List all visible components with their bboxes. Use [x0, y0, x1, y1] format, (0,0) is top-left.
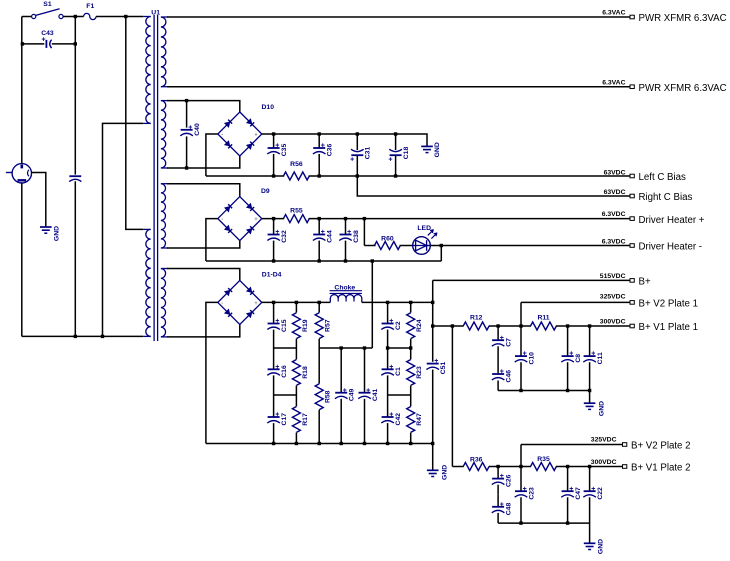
capacitor C23: [515, 490, 527, 492]
wire B+ V2 Plate 2 output: [521, 444, 623, 446]
svg-text:GND: GND: [434, 142, 441, 157]
svg-text:PWR XFMR 6.3VAC: PWR XFMR 6.3VAC: [639, 13, 727, 24]
svg-text:+: +: [500, 335, 504, 342]
svg-text:C38: C38: [353, 230, 360, 243]
capacitor C7: [492, 339, 504, 341]
wire junction rail C1-R23: [388, 394, 411, 396]
svg-text:R57: R57: [325, 319, 332, 332]
wire plate2 ground stub: [589, 523, 591, 543]
capacitor line filter: [69, 175, 81, 177]
bridge rectifier D10: [218, 112, 262, 156]
node bias bottom rail junction: [272, 174, 275, 177]
wire bias bottom rail left of R56: [206, 175, 284, 177]
ground bias GND: [421, 145, 433, 147]
resistor R19: [295, 302, 297, 312]
svg-text:+: +: [388, 157, 392, 164]
fuse F1: [84, 13, 96, 19]
wire R60 to LED: [400, 245, 413, 247]
wire 6.3VAC output 2: [167, 86, 630, 88]
node bias bottom rail junction: [318, 174, 321, 177]
capacitor C2: [382, 323, 394, 325]
svg-text:R47: R47: [416, 413, 423, 426]
capacitor C18: [390, 154, 402, 156]
AC plug P1: [12, 164, 31, 183]
svg-text:B+ V2 Plate 1: B+ V2 Plate 1: [639, 299, 699, 310]
svg-text:C35: C35: [281, 144, 288, 157]
resistor R56: [283, 172, 309, 180]
node heater minus to divider junction: [371, 259, 374, 262]
capacitor C40 leads: [186, 101, 188, 128]
wire B+ rail choke to corner: [362, 301, 433, 303]
transformer U1 primary 1 winding: [143, 16, 151, 18]
resistor R11: [531, 322, 557, 330]
wire R11 to B+ V1 Plate 1 port: [556, 325, 630, 327]
wire sec2 bottom to bridge D10: [167, 156, 240, 168]
port PWR XFMR 6.3VAC 1: [630, 15, 634, 19]
port Driver Heater +: [630, 217, 634, 221]
svg-text:+: +: [523, 486, 527, 493]
transformer U1 secondary 4 winding HV: [161, 268, 168, 270]
svg-text:C43: C43: [41, 30, 54, 37]
svg-text:C2: C2: [395, 321, 402, 330]
capacitor C38: [340, 234, 352, 236]
svg-text:S1: S1: [43, 1, 52, 8]
transformer U1 secondary 3 winding heater: [161, 183, 168, 185]
capacitor C16: [268, 368, 280, 370]
capacitor C10 leads: [520, 326, 522, 356]
svg-text:+: +: [389, 364, 393, 371]
svg-text:C41: C41: [372, 388, 379, 401]
resistor R24: [410, 302, 412, 312]
svg-text:F1: F1: [86, 3, 94, 10]
svg-text:C18: C18: [403, 147, 410, 160]
capacitor C15 leads: [273, 302, 275, 323]
resistor R55: [283, 215, 309, 223]
svg-text:R18: R18: [302, 366, 309, 379]
svg-text:C31: C31: [365, 147, 372, 160]
wire plate2 bottom rail: [498, 522, 589, 524]
svg-text:C22: C22: [597, 487, 604, 500]
svg-text:C32: C32: [281, 230, 288, 243]
ground plate2 GND: [584, 542, 596, 544]
capacitor C42: [382, 416, 394, 418]
capacitor C22: [584, 490, 596, 492]
svg-text:C7: C7: [505, 338, 512, 347]
wire B+ riser and C51 column: [432, 280, 434, 361]
svg-text:C48: C48: [505, 503, 512, 516]
capacitor C47: [562, 490, 574, 492]
svg-text:-: -: [221, 217, 223, 223]
capacitor C46 leads: [497, 372, 499, 374]
node C22 top junction: [588, 465, 591, 468]
node bias top rail junction: [356, 132, 359, 135]
node LED output junction: [440, 244, 443, 247]
capacitor C18 leads: [395, 134, 397, 150]
wire plate1 ground stub: [589, 391, 591, 404]
svg-text:+: +: [321, 229, 325, 236]
wire Driver Heater - output: [441, 245, 630, 247]
node heater minus junction: [272, 259, 275, 262]
capacitor C48: [492, 506, 504, 508]
svg-text:R58: R58: [325, 390, 332, 403]
resistor R17: [295, 395, 297, 406]
node rail2 junctions: [340, 346, 343, 349]
node bias top rail junction: [394, 132, 397, 135]
svg-text:R23: R23: [416, 366, 423, 379]
svg-text:+: +: [389, 318, 393, 325]
wire D10 plus rail to GND: [262, 134, 427, 146]
svg-text:+: +: [591, 351, 595, 358]
svg-text:C1: C1: [395, 367, 402, 376]
node C11 top junction: [588, 324, 591, 327]
wire top rail S1 to F1: [63, 16, 84, 18]
capacitor C48 leads: [497, 495, 499, 507]
port Right C Bias: [630, 194, 634, 198]
svg-text:+: +: [254, 217, 258, 223]
port B+ V2 Plate 2: [623, 443, 627, 447]
capacitor C31 leads: [356, 134, 358, 150]
capacitor C47 leads: [567, 467, 569, 492]
svg-text:Choke: Choke: [334, 284, 355, 291]
svg-text:C44: C44: [327, 230, 334, 243]
svg-text:C49: C49: [349, 388, 356, 401]
wire ground rail: [206, 443, 433, 445]
svg-text:+: +: [500, 473, 504, 480]
svg-text:C15: C15: [281, 319, 288, 332]
wire rail2 R57 to heater reference: [319, 347, 372, 349]
node plate2 feed junction: [451, 324, 454, 327]
svg-text:PWR XFMR 6.3VAC: PWR XFMR 6.3VAC: [639, 83, 727, 94]
capacitor C31: [351, 154, 363, 156]
wire Right C Bias branch: [357, 176, 630, 196]
svg-text:B+ V1 Plate 1: B+ V1 Plate 1: [639, 322, 699, 333]
svg-text:+: +: [434, 358, 438, 365]
node C40 top: [185, 99, 188, 102]
resistor R23: [410, 348, 412, 359]
svg-text:+: +: [275, 318, 279, 325]
wire heater plus rail left of R55: [262, 218, 284, 220]
capacitor C17 leads: [273, 395, 275, 417]
wire R35 to B+ V1 Plate 2 port: [556, 466, 623, 468]
node C8 top junction: [566, 324, 569, 327]
svg-text:+: +: [275, 412, 279, 419]
capacitor C49 leads: [340, 348, 342, 393]
transformer U1 secondary 1 winding 6.3VAC: [161, 16, 168, 18]
capacitor C8 leads: [567, 326, 569, 356]
wire R60 branch vertical: [363, 219, 365, 246]
wire R12 rail from B+ riser: [433, 325, 464, 327]
wire plug ground to GND: [32, 173, 46, 228]
svg-text:-: -: [221, 133, 223, 139]
capacitor C10: [515, 355, 527, 357]
wire junction rail C16-R18: [274, 394, 297, 396]
svg-text:+: +: [366, 387, 370, 394]
wire sec4 bottom to bridge D1-D4: [167, 324, 240, 337]
wire sec4 top to bridge D1-D4: [167, 269, 240, 281]
transformer U1 core: [153, 15, 155, 341]
resistor R57: [318, 302, 320, 312]
svg-text:6.3VAC: 6.3VAC: [602, 10, 625, 17]
wire D1-D4 minus stub to ground rail: [206, 302, 218, 443]
wire line filter cap vertical: [74, 17, 76, 175]
node C26 top junction: [496, 465, 499, 468]
wire 325V plate1 riser: [520, 302, 522, 326]
svg-text:+: +: [188, 124, 192, 131]
svg-text:R19: R19: [302, 319, 309, 332]
transformer U1 secondary 2 winding bias: [161, 100, 168, 102]
svg-text:63VDC: 63VDC: [604, 169, 626, 176]
svg-text:6.3VAC: 6.3VAC: [602, 79, 625, 86]
port B+ V2 Plate 1: [630, 301, 634, 305]
svg-text:C42: C42: [395, 413, 402, 426]
port B+ V1 Plate 1: [630, 324, 634, 328]
wire heater plus rail to Driver Heater + port: [309, 218, 630, 220]
capacitor C51: [427, 363, 439, 365]
svg-text:C46: C46: [505, 370, 512, 383]
svg-text:+: +: [500, 369, 504, 376]
svg-text:325VDC: 325VDC: [591, 437, 617, 444]
resistor R35: [531, 463, 557, 471]
node junction S1-F1: [74, 15, 77, 18]
wire heater minus jog up: [440, 246, 442, 262]
svg-text:6.3VDC: 6.3VDC: [602, 238, 626, 245]
capacitor C32 leads: [273, 219, 275, 235]
svg-text:325VDC: 325VDC: [600, 294, 626, 301]
node heater minus junction: [318, 259, 321, 262]
node rail2 right junctions: [386, 346, 389, 349]
svg-text:B+ V1 Plate 2: B+ V1 Plate 2: [631, 463, 691, 474]
capacitor C38 leads: [345, 219, 347, 235]
capacitor C7 leads: [497, 326, 499, 340]
node C43 right junction: [74, 42, 77, 45]
svg-text:+: +: [275, 229, 279, 236]
capacitor C22 leads: [589, 467, 591, 492]
choke L1: [330, 295, 362, 303]
capacitor C8: [562, 355, 574, 357]
capacitor C41: [359, 392, 371, 394]
capacitor C1: [382, 368, 394, 370]
svg-text:Right C Bias: Right C Bias: [639, 192, 693, 203]
transformer U1 primary 2 winding: [143, 228, 151, 230]
port B+: [630, 279, 634, 283]
wire top rail segment before S1: [22, 16, 32, 18]
node C40 bottom: [185, 166, 188, 169]
svg-text:R55: R55: [290, 208, 303, 215]
wire plug neutral down: [21, 183, 23, 336]
resistor R36: [463, 463, 489, 471]
svg-text:LED: LED: [417, 225, 431, 232]
capacitor C41 leads: [364, 348, 366, 393]
wire B+ V2 Plate 1 output: [521, 301, 630, 303]
svg-text:D10: D10: [262, 104, 275, 111]
svg-text:+: +: [569, 486, 573, 493]
svg-text:515VDC: 515VDC: [600, 273, 626, 280]
capacitor C16 leads: [273, 348, 275, 369]
wire plug hot up to top rail: [21, 17, 23, 164]
capacitor C17: [268, 416, 280, 418]
node 325V plate1 junction: [519, 324, 522, 327]
capacitor C15: [268, 323, 280, 325]
capacitor C26: [492, 478, 504, 480]
capacitor C43: [45, 40, 47, 48]
svg-text:GND: GND: [54, 226, 61, 241]
node bias bottom rail junction: [394, 174, 397, 177]
wire junction rail C15-R19: [274, 347, 297, 349]
node junction primary2 feed: [124, 15, 127, 18]
svg-text:Driver Heater -: Driver Heater -: [639, 242, 703, 253]
svg-text:R35: R35: [537, 456, 550, 463]
node heater minus junction: [344, 259, 347, 262]
port B+ V1 Plate 2: [623, 465, 627, 469]
node ground rail junctions: [272, 442, 275, 445]
svg-text:B+: B+: [639, 277, 651, 288]
svg-text:+: +: [389, 412, 393, 419]
capacitor C2 leads: [387, 302, 389, 323]
capacitor C36: [313, 147, 325, 149]
svg-text:C23: C23: [528, 487, 535, 500]
resistor R60: [374, 242, 400, 250]
wire heater minus rail: [206, 260, 441, 262]
svg-text:C11: C11: [597, 352, 604, 364]
svg-text:+: +: [569, 351, 573, 358]
bridge rectifier D1-D4: [218, 280, 262, 324]
capacitor C23 leads: [520, 467, 522, 492]
wire plate2 feed vertical: [451, 326, 453, 467]
wire primary2 feed vertical: [126, 17, 143, 230]
svg-text:+: +: [275, 143, 279, 150]
wire primary1 bottom return: [103, 123, 144, 336]
svg-text:+: +: [254, 301, 258, 307]
resistor R58: [318, 348, 320, 384]
wire plate2 rail to R36: [452, 466, 463, 468]
wire junction rail C2-R24: [388, 347, 411, 349]
svg-text:Driver Heater +: Driver Heater +: [639, 215, 705, 226]
svg-text:D1-D4: D1-D4: [262, 272, 282, 279]
capacitor C49: [335, 392, 347, 394]
wire B+ output: [433, 279, 630, 281]
svg-text:C47: C47: [575, 487, 582, 500]
bridge rectifier D9: [218, 197, 262, 241]
node bias top rail junction: [272, 132, 275, 135]
resistor R12: [463, 322, 489, 330]
wire R36 to R35: [489, 466, 531, 468]
svg-text:C10: C10: [528, 352, 535, 365]
wire sec3 top to bridge D9: [167, 184, 240, 197]
wire sec3 bottom to bridge D9: [167, 241, 240, 248]
svg-text:+: +: [523, 351, 527, 358]
svg-text:R56: R56: [290, 161, 303, 168]
capacitor C40: [181, 129, 193, 131]
switch S1: [32, 14, 36, 18]
wire bottom neutral rail: [22, 335, 143, 337]
node 325V plate2 junction: [519, 465, 522, 468]
svg-text:C51: C51: [440, 362, 447, 375]
svg-text:+: +: [500, 501, 504, 508]
wire sec2 top to bridge D10: [167, 101, 240, 112]
svg-text:C17: C17: [281, 413, 288, 426]
capacitor C11 leads: [589, 326, 591, 356]
capacitor C46: [492, 373, 504, 375]
svg-text:C8: C8: [575, 354, 582, 363]
node plate1 bottom junctions: [519, 389, 522, 392]
svg-text:+: +: [591, 486, 595, 493]
svg-text:63VDC: 63VDC: [604, 189, 626, 196]
svg-text:D9: D9: [261, 188, 270, 195]
svg-text:GND: GND: [598, 539, 605, 554]
node R60 branch junction: [363, 217, 366, 220]
svg-text:C40: C40: [194, 123, 201, 136]
node heater plus junction: [272, 217, 275, 220]
wire D9 minus stub: [206, 219, 218, 261]
svg-text:+: +: [254, 133, 258, 139]
svg-text:+: +: [350, 157, 354, 164]
port Left C Bias: [630, 174, 634, 178]
ground main GND: [427, 469, 439, 471]
svg-text:+: +: [321, 143, 325, 150]
ground plug GND: [40, 226, 52, 228]
node B+ rail junctions: [272, 301, 275, 304]
wire main ground stub: [432, 444, 434, 471]
wire plate1 bottom rail: [498, 390, 589, 392]
svg-text:C26: C26: [505, 474, 512, 487]
svg-text:R36: R36: [470, 457, 483, 464]
node C43 left junction: [21, 42, 24, 45]
node plate2 bottom junctions: [519, 521, 522, 524]
node C47 top junction: [566, 465, 569, 468]
svg-text:Left C Bias: Left C Bias: [639, 172, 687, 183]
capacitor C43 bypass wire: [22, 43, 44, 45]
svg-text:+: +: [42, 36, 46, 43]
node bias bottom rail junction: [356, 174, 359, 177]
resistor R18: [295, 348, 297, 359]
svg-text:+: +: [347, 229, 351, 236]
svg-text:R12: R12: [470, 315, 483, 322]
node C7 top junction: [496, 324, 499, 327]
wire bias bottom rail to Left C Bias port: [309, 175, 630, 177]
svg-text:R60: R60: [381, 235, 394, 242]
capacitor C44 leads: [318, 219, 320, 235]
node bias top rail junction: [318, 132, 321, 135]
svg-text:6.3VDC: 6.3VDC: [602, 211, 626, 218]
capacitor C35 leads: [273, 134, 275, 148]
LED D11: [413, 237, 431, 255]
svg-text:GND: GND: [442, 465, 449, 480]
wire 6.3VAC output 1: [167, 16, 630, 18]
svg-text:B+ V2 Plate 2: B+ V2 Plate 2: [631, 441, 691, 452]
capacitor C26 leads: [497, 467, 499, 479]
wire heater minus reference vertical: [371, 261, 373, 348]
port Driver Heater -: [630, 244, 634, 248]
ground plate1 GND: [584, 402, 596, 404]
resistor R47: [410, 395, 412, 406]
svg-text:U1: U1: [151, 9, 160, 16]
svg-text:300VDC: 300VDC: [600, 318, 626, 325]
node heater plus junction: [318, 217, 321, 220]
wire LED to output junction: [430, 245, 441, 247]
node R12 rail corner junction: [431, 324, 434, 327]
capacitor C36 leads: [318, 134, 320, 148]
node neutral rail junction x=75: [74, 335, 77, 338]
svg-text:+: +: [275, 364, 279, 371]
capacitor C11: [584, 355, 596, 357]
port PWR XFMR 6.3VAC 2: [630, 85, 634, 89]
svg-text:GND: GND: [599, 401, 606, 416]
capacitor C1 leads: [387, 348, 389, 369]
wire R12 to R11: [489, 325, 531, 327]
wire 325V plate2 riser: [520, 445, 522, 467]
capacitor C42 leads: [387, 395, 389, 417]
node neutral rail junction x=102: [101, 335, 104, 338]
